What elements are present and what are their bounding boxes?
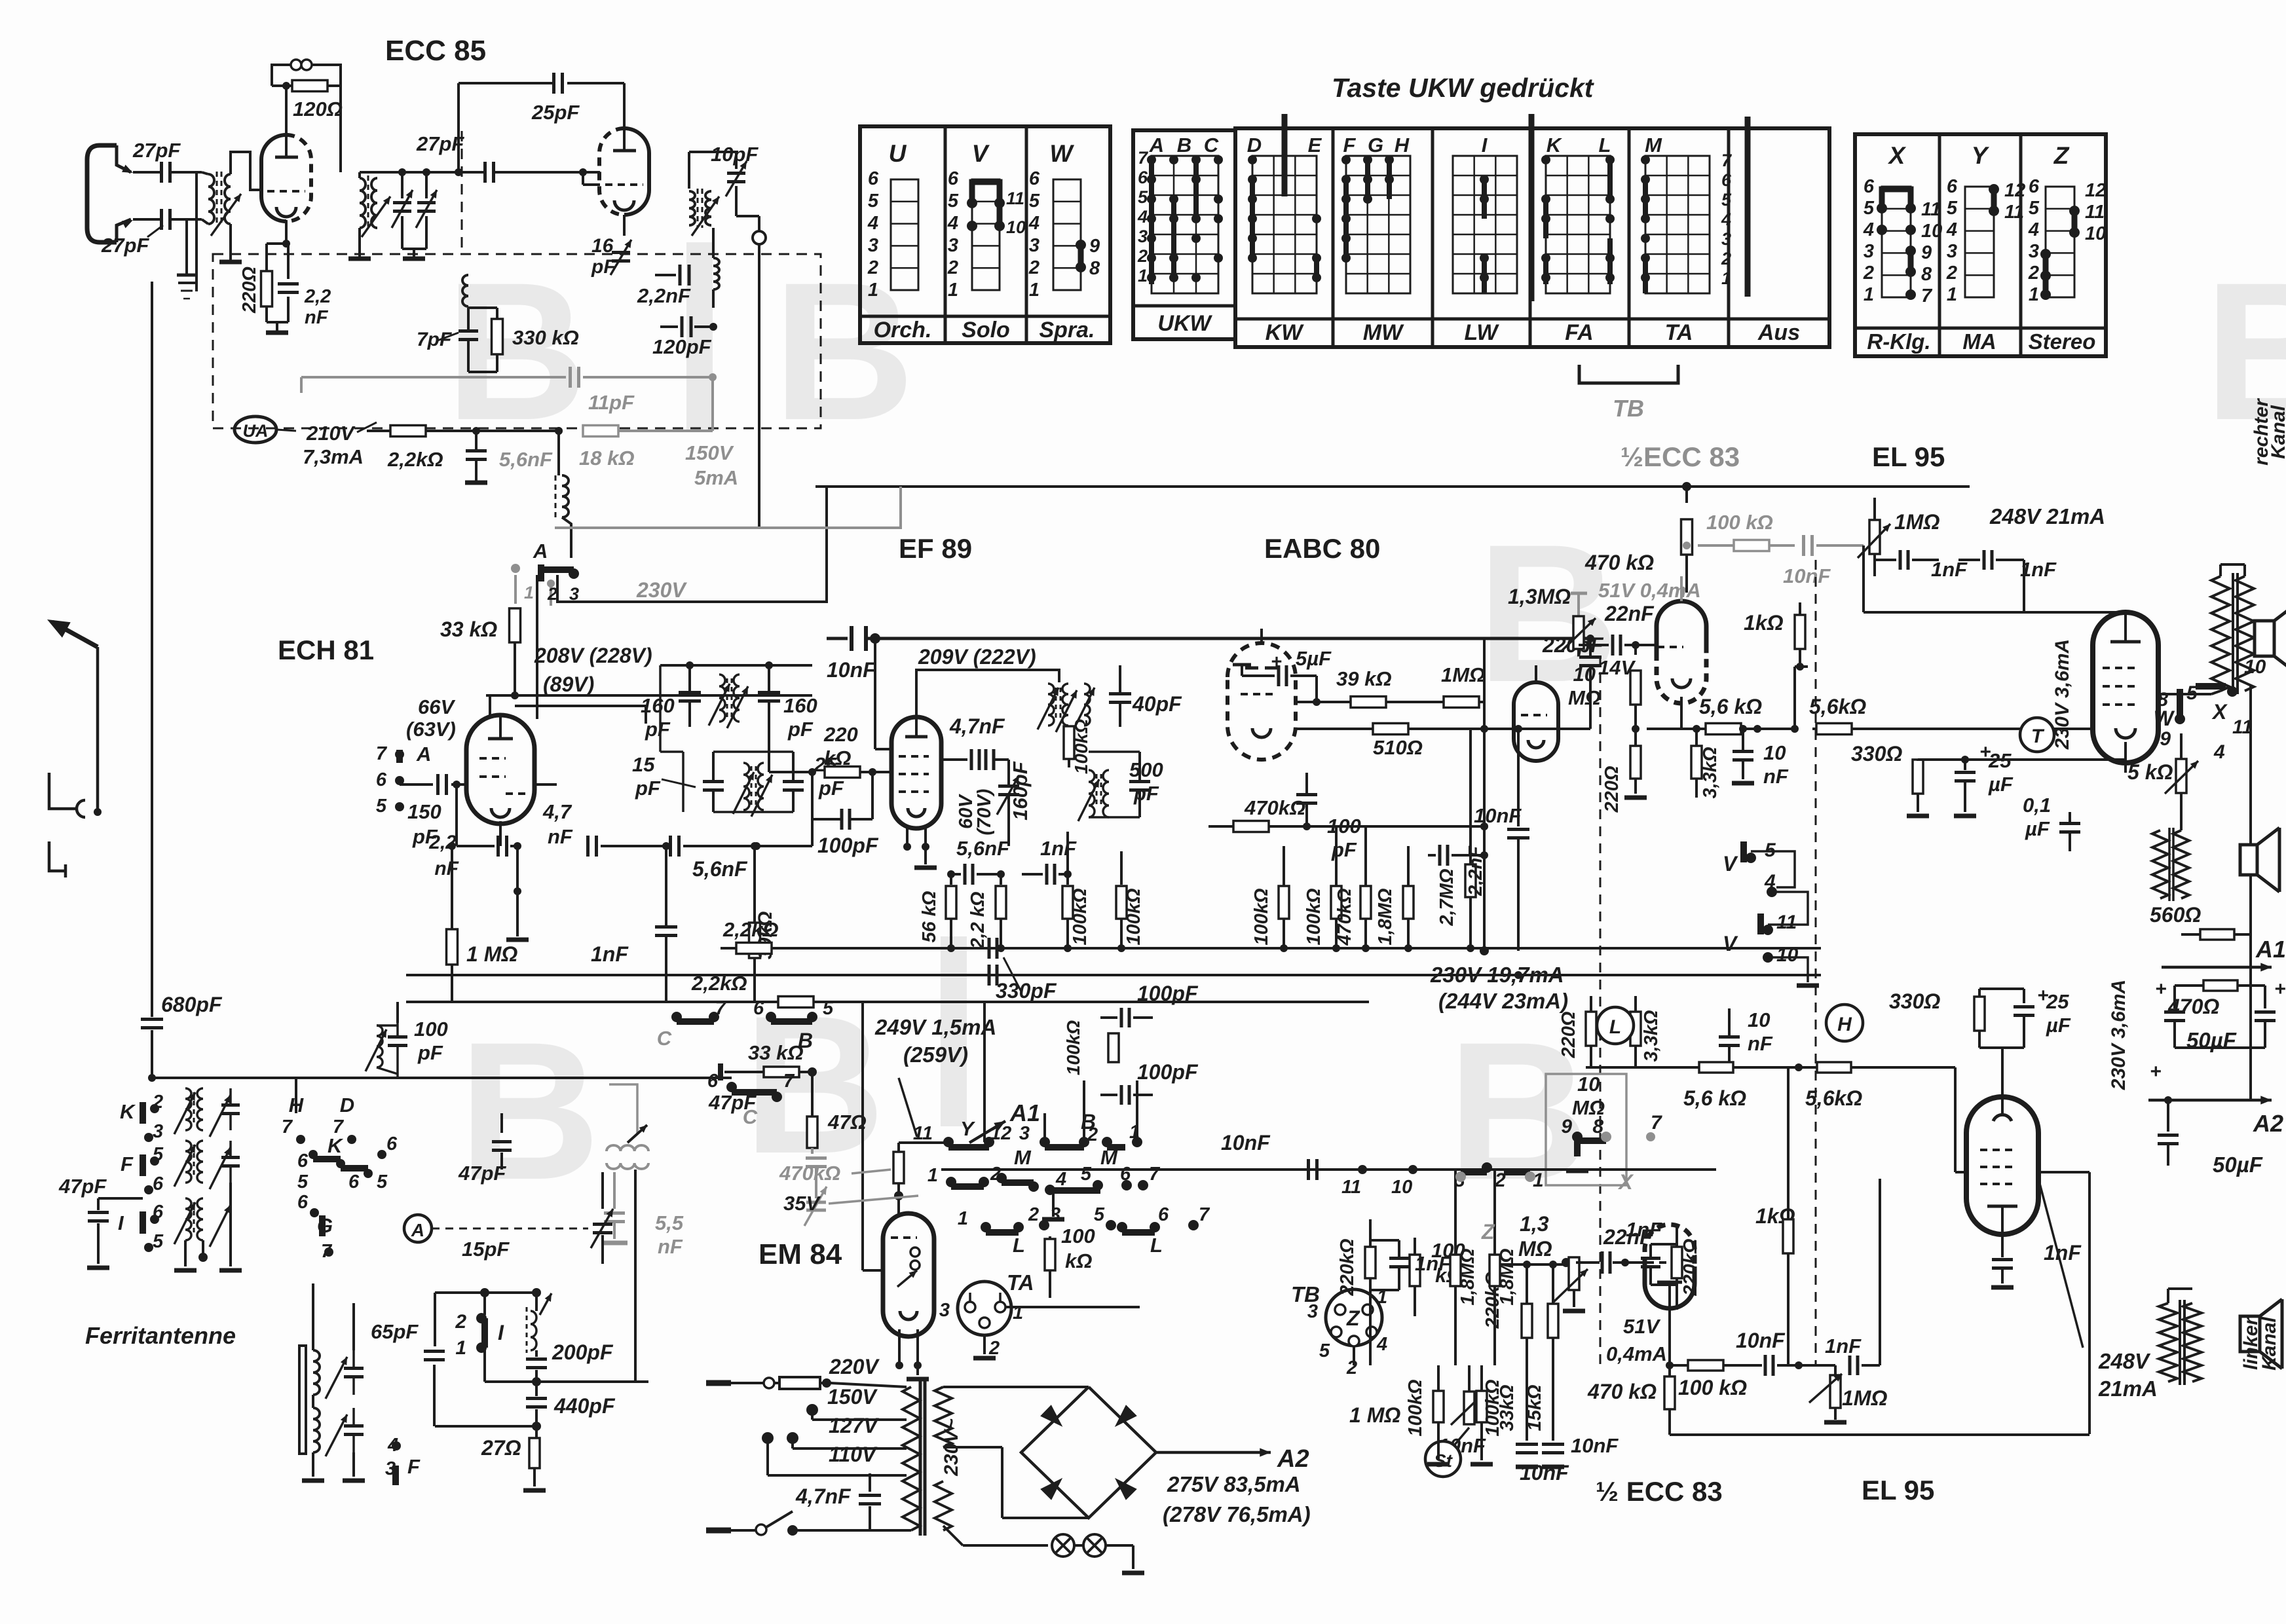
svg-text:3: 3 — [1029, 235, 1040, 256]
beam pentode EL95 (lower) — [1966, 1097, 2038, 1234]
svg-text:330 kΩ: 330 kΩ — [512, 326, 579, 349]
svg-text:(244V 23mA): (244V 23mA) — [1438, 989, 1568, 1013]
capacitor 10nF (lower NFB) — [1725, 1063, 1733, 1071]
UKW contact dots — [1147, 155, 1156, 164]
wire EL95b grid — [1954, 1067, 1957, 1172]
triode 1/2 ECC83 (upper) — [1657, 601, 1706, 652]
svg-text:1MΩ: 1MΩ — [1842, 1386, 1887, 1410]
circled A (gang) — [404, 1215, 432, 1242]
svg-text:100 kΩ: 100 kΩ — [1678, 1376, 1747, 1399]
svg-text:120pF: 120pF — [652, 335, 712, 358]
svg-text:B: B — [773, 241, 915, 461]
svg-text:A: A — [416, 743, 431, 766]
svg-text:3: 3 — [153, 1121, 163, 1142]
svg-text:4: 4 — [1721, 210, 1731, 229]
svg-text:5µF: 5µF — [1296, 647, 1332, 670]
svg-text:A1: A1 — [2255, 936, 2286, 963]
svg-text:Spra.: Spra. — [1039, 318, 1095, 342]
svg-text:L: L — [1599, 134, 1611, 157]
svg-text:5mA: 5mA — [694, 466, 738, 489]
wire lower 230V bus — [720, 974, 721, 976]
svg-text:FA: FA — [1565, 320, 1593, 345]
svg-text:2: 2 — [1863, 263, 1874, 284]
svg-text:EF 89: EF 89 — [899, 533, 972, 564]
svg-text:11: 11 — [1341, 1177, 1361, 1198]
svg-text:275V 83,5mA: 275V 83,5mA — [1167, 1472, 1301, 1496]
svg-text:EL 95: EL 95 — [1862, 1475, 1934, 1505]
svg-text:Stereo: Stereo — [2029, 329, 2096, 354]
svg-text:10nF: 10nF — [827, 658, 876, 682]
triode of EABC80 — [1514, 682, 1558, 761]
resistor 470 Ohm — [2203, 980, 2238, 991]
svg-text:0,4mA: 0,4mA — [1606, 1342, 1667, 1365]
svg-text:5: 5 — [377, 1172, 388, 1192]
svg-text:220Ω: 220Ω — [1558, 1011, 1579, 1058]
coil pair IF2 bottom — [1089, 770, 1095, 817]
resistor 5,6 kOhm d — [1817, 1062, 1851, 1073]
svg-text:A2: A2 — [2253, 1110, 2283, 1137]
svg-text:MA: MA — [1962, 329, 1996, 354]
svg-text:4: 4 — [1376, 1334, 1387, 1355]
svg-text:6: 6 — [1138, 168, 1148, 187]
resistor 220 kOhm + 1nF (Z network a) — [1365, 1247, 1376, 1278]
triode ECC85 b — [599, 128, 624, 215]
svg-text:A: A — [533, 540, 548, 563]
svg-text:500: 500 — [1129, 758, 1163, 781]
main bus 230V 19,7mA — [721, 947, 1821, 950]
oscillator tuned circuit coils — [360, 178, 365, 228]
svg-text:27pF: 27pF — [132, 139, 181, 162]
wire AM line to mixer — [296, 1077, 732, 1079]
svg-text:Ferritantenne: Ferritantenne — [85, 1322, 236, 1349]
svg-text:1,8MΩ: 1,8MΩ — [1457, 1248, 1478, 1305]
svg-text:µF: µF — [2046, 1014, 2071, 1037]
svg-text:I: I — [118, 1211, 124, 1234]
capacitor 330pF on bus — [988, 938, 991, 959]
svg-text:6: 6 — [1029, 168, 1040, 189]
svg-text:X: X — [1617, 1170, 1634, 1194]
wire ECC83a to EL95a — [1793, 667, 1796, 729]
wire IF2 out to EABC80 diode — [1108, 817, 1110, 826]
pilot lamps — [943, 1473, 944, 1481]
svg-text:5,6nF: 5,6nF — [499, 448, 553, 471]
dashed linkage line H — [1815, 560, 1817, 1365]
output transformer (lower) — [2159, 1303, 2177, 1382]
svg-text:5: 5 — [153, 1231, 164, 1252]
svg-text:nF: nF — [434, 858, 459, 879]
svg-text:8: 8 — [1921, 264, 1932, 285]
svg-text:160: 160 — [783, 694, 817, 717]
svg-text:nF: nF — [1748, 1032, 1773, 1055]
svg-text:4,7nF: 4,7nF — [949, 714, 1005, 738]
svg-text:E: E — [1308, 134, 1322, 157]
svg-text:EL 95: EL 95 — [1872, 441, 1945, 472]
contact Z bold bridges — [2069, 206, 2080, 216]
coil pair IF1 top — [719, 674, 725, 722]
svg-text:TA: TA — [1007, 1270, 1034, 1295]
svg-text:10: 10 — [1921, 221, 1942, 242]
resistor 470 kOhm e — [1360, 886, 1371, 919]
svg-text:40pF: 40pF — [1132, 692, 1182, 716]
svg-text:470 kΩ: 470 kΩ — [1587, 1380, 1657, 1403]
svg-text:nF: nF — [1763, 765, 1789, 788]
svg-text:Aus: Aus — [1757, 320, 1800, 345]
svg-text:+: + — [2274, 978, 2286, 1000]
svg-text:1: 1 — [1013, 1302, 1023, 1323]
svg-text:4,7: 4,7 — [542, 800, 572, 823]
electrolytic 50uF b — [2164, 1096, 2172, 1104]
UA oval terminal — [234, 416, 276, 443]
antenna jack symbols — [49, 773, 72, 809]
gray trimmer (AM mixer pad) — [806, 1201, 826, 1204]
svg-text:L: L — [1609, 1016, 1621, 1038]
svg-text:M: M — [1014, 1146, 1032, 1169]
svg-text:4: 4 — [1946, 219, 1957, 240]
svg-text:1: 1 — [1138, 266, 1148, 286]
svg-text:1nF: 1nF — [2044, 1241, 2082, 1264]
svg-text:6: 6 — [297, 1192, 309, 1213]
svg-text:Kanal: Kanal — [2258, 1316, 2280, 1370]
svg-text:4: 4 — [2213, 741, 2225, 763]
rectifier bridge — [1021, 1387, 1156, 1518]
svg-text:2: 2 — [455, 1311, 466, 1333]
mains switch + plug prong b — [706, 1528, 731, 1534]
svg-text:3: 3 — [948, 235, 958, 256]
svg-text:ECC 85: ECC 85 — [385, 35, 486, 67]
contact W bold bridge pins 9-8 — [1078, 245, 1084, 267]
svg-text:100kΩ: 100kΩ — [1070, 888, 1091, 946]
wire long bus to lower amp — [1586, 1066, 1955, 1069]
wire grid to triode 1 — [231, 152, 261, 190]
svg-text:220kΩ: 220kΩ — [1337, 1238, 1358, 1297]
capacitor 10nF pair to ground — [1516, 1443, 1538, 1446]
wire ferrite to switch — [312, 1283, 314, 1350]
svg-text:TB: TB — [1613, 395, 1644, 422]
svg-text:33 kΩ: 33 kΩ — [440, 618, 497, 641]
svg-text:2,2: 2,2 — [304, 286, 331, 307]
svg-text:100: 100 — [1061, 1225, 1095, 1247]
wire long left vertical from antenna — [151, 282, 153, 1017]
svg-text:1: 1 — [524, 583, 534, 602]
svg-text:X: X — [1888, 142, 1907, 169]
svg-text:1 MΩ: 1 MΩ — [466, 942, 517, 966]
coil (ratio det) — [462, 275, 468, 306]
DIN socket TA — [958, 1282, 1011, 1335]
svg-text:11: 11 — [2085, 202, 2105, 223]
FM IF output transformer — [623, 215, 626, 236]
svg-text:µF: µF — [1988, 773, 2014, 796]
IF transformer 2 — [1048, 684, 1054, 726]
svg-text:15pF: 15pF — [462, 1238, 510, 1261]
svg-text:65pF: 65pF — [371, 1320, 419, 1343]
svg-text:T: T — [2031, 726, 2045, 747]
svg-text:+: + — [2155, 978, 2167, 1000]
resistor 5,6 kOhm c — [1699, 1062, 1733, 1073]
svg-text:X: X — [2211, 700, 2228, 724]
svg-text:Orch.: Orch. — [874, 318, 932, 342]
resistor 220 Ohm (lower) — [1585, 1012, 1586, 1014]
svg-text:MΩ: MΩ — [1568, 686, 1601, 709]
power transformer HT secondary — [935, 1387, 952, 1447]
svg-text:51V: 51V — [1623, 1315, 1660, 1338]
svg-text:6: 6 — [348, 1172, 360, 1192]
wire 209V anode loop — [916, 670, 1059, 717]
svg-text:A: A — [1149, 134, 1164, 157]
svg-text:5: 5 — [2029, 198, 2040, 219]
svg-text:230V 3,6mA: 230V 3,6mA — [2108, 980, 2129, 1090]
svg-text:1: 1 — [1947, 284, 1957, 305]
svg-text:100: 100 — [1327, 815, 1361, 838]
svg-text:K: K — [120, 1100, 136, 1123]
resistor 120 Ohm (anode feed) — [272, 84, 292, 87]
svg-text:100: 100 — [414, 1018, 448, 1041]
DIN socket TB — [1326, 1289, 1382, 1346]
decoupling coil to A node — [555, 427, 563, 435]
svg-text:248V: 248V — [2098, 1349, 2151, 1373]
svg-text:EABC 80: EABC 80 — [1264, 533, 1380, 564]
svg-text:3: 3 — [1138, 227, 1148, 246]
svg-text:100kΩ: 100kΩ — [1071, 719, 1091, 774]
svg-text:2,2kΩ: 2,2kΩ — [722, 918, 779, 941]
svg-text:1nF: 1nF — [591, 942, 629, 966]
capacitor 2,2nF (cathode) — [286, 242, 288, 245]
svg-text:5: 5 — [868, 191, 879, 212]
resistor 15 kOhm rotated — [1548, 1304, 1558, 1338]
svg-text:(63V): (63V) — [406, 718, 456, 741]
speaker (upper right) — [2255, 621, 2274, 656]
svg-text:L: L — [1013, 1234, 1025, 1257]
svg-text:160: 160 — [641, 694, 675, 717]
AM input transformer 1 — [185, 1088, 191, 1130]
triode ECC85 a — [261, 135, 286, 221]
svg-text:470kΩ: 470kΩ — [1334, 888, 1355, 946]
resistor 470 kOhm (ECC83a anode load) — [1682, 482, 1691, 491]
svg-text:25: 25 — [2046, 990, 2069, 1013]
svg-text:27Ω: 27Ω — [481, 1436, 521, 1460]
output transformer (upper) — [2211, 576, 2230, 691]
svg-text:6: 6 — [707, 1071, 719, 1092]
svg-text:10: 10 — [1006, 217, 1026, 237]
svg-text:LW: LW — [1465, 320, 1500, 345]
resistor 100 kOhm d — [1331, 886, 1341, 919]
svg-text:Z: Z — [1346, 1306, 1360, 1330]
svg-text:27pF: 27pF — [101, 234, 149, 257]
svg-text:2: 2 — [2028, 263, 2039, 284]
svg-text:1: 1 — [1721, 268, 1731, 288]
pushbutton table UKW/KW/MW/LW/FA/TA/Aus (contacts A-M) — [1133, 130, 1235, 339]
svg-text:15kΩ: 15kΩ — [1524, 1384, 1545, 1431]
wire EABC out vertical — [1483, 638, 1486, 951]
svg-text:9: 9 — [1921, 242, 1932, 263]
svg-text:6: 6 — [153, 1173, 164, 1194]
svg-text:5: 5 — [1094, 1204, 1105, 1225]
svg-text:1: 1 — [1864, 284, 1874, 305]
svg-text:470kΩ: 470kΩ — [779, 1162, 840, 1185]
svg-text:12: 12 — [2004, 180, 2025, 201]
svg-text:220Ω: 220Ω — [239, 267, 260, 314]
svg-text:1: 1 — [868, 280, 878, 301]
wire bus drop to EM84 — [861, 1002, 864, 1270]
svg-text:UA: UA — [243, 421, 269, 441]
svg-text:kΩ: kΩ — [1065, 1249, 1092, 1272]
svg-text:5,6 kΩ: 5,6 kΩ — [1699, 695, 1762, 718]
svg-text:100pF: 100pF — [817, 834, 879, 857]
svg-text:5: 5 — [1081, 1164, 1092, 1185]
svg-text:330pF: 330pF — [996, 979, 1057, 1003]
resistor 5,6 kOhm b — [1816, 724, 1852, 735]
svg-text:2: 2 — [1721, 249, 1731, 268]
svg-text:1nF: 1nF — [1626, 1218, 1662, 1241]
svg-text:5: 5 — [1947, 198, 1958, 219]
pushbutton table R-Klg./MA/Stereo (contacts X Y Z) — [1855, 134, 2106, 356]
svg-text:1MΩ: 1MΩ — [1441, 663, 1485, 686]
svg-text:5: 5 — [948, 191, 959, 212]
svg-text:7: 7 — [1138, 148, 1149, 168]
svg-text:160pF: 160pF — [1009, 761, 1032, 821]
svg-text:1,3: 1,3 — [1520, 1212, 1549, 1236]
svg-text:B: B — [459, 1001, 601, 1221]
svg-text:5,5: 5,5 — [655, 1211, 684, 1234]
electrolytic 25uF b — [2023, 989, 2025, 1003]
svg-text:I: I — [1482, 134, 1488, 157]
svg-text:3: 3 — [1307, 1301, 1318, 1322]
svg-text:4: 4 — [2028, 219, 2039, 240]
circle St — [1425, 1441, 1461, 1477]
svg-text:nF: nF — [548, 825, 573, 848]
svg-text:5: 5 — [1029, 191, 1040, 212]
svg-text:1: 1 — [1533, 1170, 1544, 1191]
svg-text:1,8MΩ: 1,8MΩ — [1497, 1248, 1518, 1305]
svg-text:7: 7 — [783, 1071, 795, 1092]
svg-text:56 kΩ: 56 kΩ — [919, 891, 940, 942]
svg-text:440pF: 440pF — [553, 1394, 616, 1418]
svg-text:1: 1 — [2029, 284, 2039, 305]
resistor 100 kOhm c — [1279, 886, 1289, 919]
svg-text:A2: A2 — [1277, 1445, 1309, 1473]
svg-text:H: H — [1837, 1014, 1852, 1035]
svg-text:pF: pF — [645, 718, 671, 741]
svg-text:K: K — [328, 1134, 344, 1157]
AM input transformer 3 — [185, 1198, 191, 1240]
capacitor 160pF b — [768, 665, 770, 692]
wire antenna bus — [152, 1077, 296, 1079]
svg-text:2,2 kΩ: 2,2 kΩ — [967, 891, 988, 949]
wire EM84 grid feed — [899, 1141, 948, 1144]
resistor 3,3 kOhm (lower) — [1630, 1012, 1641, 1046]
svg-text:7: 7 — [1721, 151, 1733, 170]
svg-text:220Ω: 220Ω — [1602, 766, 1622, 813]
svg-text:8: 8 — [1089, 258, 1100, 279]
svg-text:7: 7 — [282, 1116, 293, 1137]
svg-text:1: 1 — [958, 1208, 968, 1229]
resistor 1,8 MOhm — [1403, 886, 1414, 919]
svg-text:1nF: 1nF — [1825, 1335, 1862, 1357]
capacitor 160pF a — [688, 665, 691, 692]
svg-text:208V (228V): 208V (228V) — [534, 644, 652, 667]
svg-text:5,6nF: 5,6nF — [692, 857, 748, 881]
resistor 33 kOhm (ECH81 anode feed) — [514, 575, 517, 604]
svg-text:St: St — [1434, 1450, 1453, 1471]
grounds under AM transformers — [185, 1130, 186, 1264]
svg-text:110V: 110V — [829, 1443, 878, 1466]
transformer core — [919, 1380, 922, 1536]
svg-text:150V: 150V — [685, 441, 734, 464]
svg-text:1MΩ: 1MΩ — [1894, 510, 1939, 534]
svg-text:249V 1,5mA: 249V 1,5mA — [874, 1015, 996, 1039]
svg-text:V: V — [1723, 852, 1738, 876]
svg-text:150: 150 — [407, 800, 441, 823]
svg-text:Taste UKW gedrückt: Taste UKW gedrückt — [1332, 73, 1595, 103]
svg-text:F: F — [1343, 134, 1357, 157]
triode 1/2 ECC83 (lower) — [1645, 1266, 1695, 1308]
svg-text:100kΩ: 100kΩ — [1303, 888, 1324, 946]
magic eye EM84 — [883, 1213, 934, 1337]
svg-text:25: 25 — [1988, 749, 2012, 772]
capacitor 10nF gray (coupling) — [1802, 535, 1805, 556]
svg-text:2: 2 — [1028, 257, 1040, 278]
svg-text:11: 11 — [1776, 912, 1797, 933]
wire gray branch to EF89 screen — [758, 487, 901, 528]
svg-text:10pF: 10pF — [711, 143, 759, 166]
svg-text:2: 2 — [1087, 1124, 1098, 1145]
svg-text:2,2nF: 2,2nF — [637, 284, 691, 307]
svg-text:UKW: UKW — [1157, 311, 1212, 336]
capacitor 500pF — [1138, 752, 1141, 781]
svg-text:4,7nF: 4,7nF — [795, 1485, 852, 1508]
svg-text:V: V — [972, 140, 990, 167]
ferrite rod antenna — [299, 1346, 306, 1454]
resistor 100 kOhm (IF2 damp) — [1064, 726, 1074, 759]
svg-text:5: 5 — [823, 998, 834, 1019]
svg-text:Z: Z — [1481, 1220, 1495, 1244]
svg-text:pF: pF — [1133, 782, 1159, 805]
svg-text:3,3kΩ: 3,3kΩ — [1641, 1010, 1662, 1061]
svg-text:4: 4 — [1028, 213, 1040, 234]
three long selector bars above/through table — [1282, 114, 1288, 196]
trimmer capacitor pair (osc) — [393, 201, 411, 204]
svg-text:B: B — [1177, 134, 1191, 157]
A2 arrow — [2148, 1099, 2272, 1102]
svg-text:U: U — [889, 140, 907, 167]
svg-text:6: 6 — [376, 769, 387, 790]
wire 89V screen line — [515, 706, 646, 724]
svg-text:11pF: 11pF — [588, 391, 635, 414]
capacitor 25pF — [792, 752, 795, 781]
svg-text:pF: pF — [1331, 838, 1357, 861]
bus to Z contacts — [941, 1168, 1716, 1171]
svg-text:248V 21mA: 248V 21mA — [1989, 504, 2105, 528]
coil pair IF1 bottom — [743, 763, 749, 810]
resistor 220 Ohm (cathode) — [267, 242, 286, 245]
output transformer (tweeter) — [2173, 830, 2189, 898]
electrolytic 50uF a — [2173, 986, 2176, 1008]
svg-text:pF: pF — [787, 718, 814, 741]
capacitor 120pF — [660, 325, 678, 328]
svg-text:1: 1 — [928, 1165, 938, 1186]
svg-text:10nF: 10nF — [1520, 1461, 1569, 1485]
svg-text:3: 3 — [1050, 1204, 1060, 1225]
A1 arrow (supply rail) — [2162, 966, 2272, 969]
TB bracket under FA/TA — [1579, 365, 1678, 383]
svg-text:100pF: 100pF — [1137, 1060, 1199, 1084]
svg-text:680pF: 680pF — [161, 993, 223, 1016]
svg-text:100kΩ: 100kΩ — [1251, 888, 1272, 946]
svg-text:10: 10 — [1577, 1073, 1600, 1096]
svg-text:47pF: 47pF — [58, 1175, 107, 1198]
svg-text:W: W — [2154, 707, 2175, 730]
svg-text:21mA: 21mA — [2098, 1376, 2158, 1401]
svg-text:1 MΩ: 1 MΩ — [1349, 1403, 1400, 1427]
